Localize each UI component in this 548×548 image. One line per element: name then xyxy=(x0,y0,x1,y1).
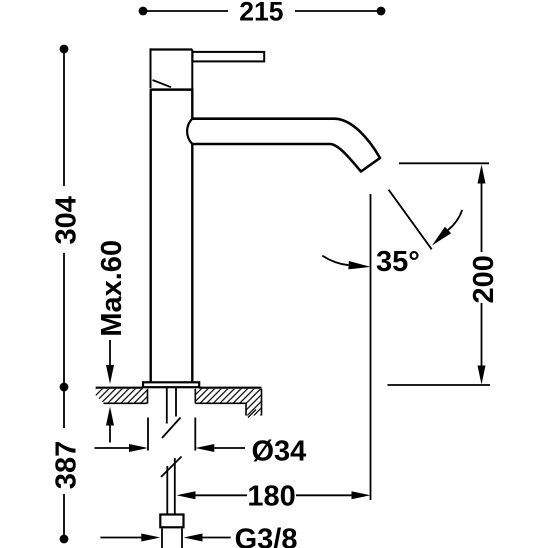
angle 35: right curved arrowhead xyxy=(432,227,451,246)
dimension 200: upper shaft xyxy=(481,180,483,252)
svg-text:G3/8: G3/8 xyxy=(235,524,298,548)
spout outlet extension line xyxy=(370,194,372,500)
dimension Max.60: lower arrow shaft xyxy=(109,424,111,443)
svg-text:180: 180 xyxy=(247,480,295,512)
svg-text:200: 200 xyxy=(468,255,500,303)
angle 35: left curved arrow arc xyxy=(322,256,348,266)
tailpiece upper left line xyxy=(166,387,168,424)
faucet handle housing left edge xyxy=(150,48,152,88)
dimension 387 left: lower line segment xyxy=(63,494,65,539)
dimension G3/8: right arrowhead xyxy=(184,534,203,542)
dimension 304 left: lower line segment xyxy=(63,253,65,387)
countertop right section bottom edge xyxy=(195,402,246,404)
dimension G3/8: left arrowhead xyxy=(141,534,160,542)
dimension D34: left extension line xyxy=(147,418,149,451)
dimension 387 left: bottom dot xyxy=(60,535,69,544)
dimension 304 left: top dot xyxy=(60,45,69,54)
dimension Max.60: up arrowhead from counter bottom xyxy=(106,407,114,426)
spout left rounded cap xyxy=(187,119,192,144)
dimension 304/387 shared dot xyxy=(60,383,69,392)
svg-text:Max.60: Max.60 xyxy=(96,240,128,337)
dimension 200: bottom tick line xyxy=(388,384,491,386)
dimension G3/8: left arrow line xyxy=(100,537,142,539)
dimension D34: left arrow line xyxy=(95,447,131,449)
dimension 387 left: upper line segment xyxy=(63,387,65,428)
dimension G3/8: right arrow line xyxy=(203,537,231,539)
dimension 304 left: upper line segment xyxy=(63,49,65,186)
spout outline xyxy=(192,119,380,172)
dimension D34: right extension line xyxy=(194,418,196,451)
faucet body seam line xyxy=(150,88,194,91)
dimension 215 top: left line segment xyxy=(143,10,228,12)
tailpiece lower right line xyxy=(174,458,176,515)
dimension 215 top: right dot xyxy=(377,7,386,16)
tailpiece upper right line xyxy=(175,387,177,417)
dimension 180: left arrowhead at tailpiece xyxy=(177,491,196,499)
nut left extension line xyxy=(161,529,163,548)
dimension Max.60: down arrowhead to counter top xyxy=(106,365,114,384)
dimension 200: top arrowhead xyxy=(478,165,486,184)
countertop right section step edge xyxy=(245,403,247,415)
dimension Max.60: upper arrow shaft xyxy=(109,340,111,366)
svg-text:Ø34: Ø34 xyxy=(252,436,307,468)
angle 35: stream diagonal line xyxy=(389,190,432,250)
tailpiece break slash lower xyxy=(161,457,182,478)
faucet body column left edge xyxy=(149,90,151,383)
tailpiece lower left line xyxy=(166,466,168,515)
svg-text:215: 215 xyxy=(239,0,283,27)
countertop right section right edge xyxy=(261,389,263,416)
faucet body column right edge lower xyxy=(191,144,193,383)
dimension 180: right line segment xyxy=(296,494,352,496)
dimension 215 top: left dot xyxy=(139,7,148,16)
angle 35: left curved arrowhead xyxy=(348,261,370,269)
countertop right section hole edge xyxy=(194,389,196,404)
faucet handle housing top edge xyxy=(150,48,193,50)
dimension 215 top: right line segment xyxy=(295,10,381,12)
mounting flange xyxy=(143,382,199,387)
countertop right section hatch xyxy=(195,389,261,416)
countertop left surface line xyxy=(96,387,143,389)
dimension 180: left line segment xyxy=(196,494,248,496)
countertop right section break stub xyxy=(248,410,256,418)
svg-text:304: 304 xyxy=(50,196,82,244)
countertop left section hole edge xyxy=(147,389,149,404)
supply nut G3/8 xyxy=(160,515,183,528)
dimension D34: right arrow line xyxy=(214,447,245,449)
svg-text:35°: 35° xyxy=(376,246,420,278)
svg-text:387: 387 xyxy=(50,441,82,489)
faucet handle housing right edge xyxy=(191,50,193,90)
faucet handle skirt diagonal xyxy=(153,80,172,87)
dimension 200: lower shaft xyxy=(481,303,483,370)
tailpiece break slash upper xyxy=(162,418,181,439)
countertop left section hatch xyxy=(96,389,148,404)
angle 35: right curved arrow arc xyxy=(448,210,462,230)
dimension 200: bottom arrowhead xyxy=(478,366,486,385)
countertop left section bottom edge xyxy=(104,402,148,404)
faucet body column right edge upper xyxy=(191,90,193,120)
dimension 200: top tick line xyxy=(399,162,489,164)
nut right extension line xyxy=(181,529,183,548)
dimension D34: right arrowhead xyxy=(195,444,214,452)
dimension 180: right arrowhead xyxy=(352,491,371,499)
faucet handle lever xyxy=(192,52,264,62)
dimension D34: left arrowhead xyxy=(129,444,148,452)
countertop right surface line xyxy=(199,387,261,389)
